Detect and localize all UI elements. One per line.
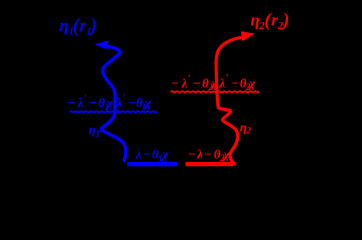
svg-text:1: 1 [95, 130, 100, 140]
svg-text:−: − [89, 95, 97, 110]
svg-text:χ: χ [105, 95, 114, 110]
node label eta1(r1) top-left [59, 16, 97, 38]
wire: blue level line [127, 162, 177, 166]
svg-text:−: − [231, 75, 239, 90]
node label lambda'-theta2chi (right of line) [219, 73, 257, 92]
svg-text:λ: λ [135, 146, 142, 161]
svg-text:−: − [171, 75, 179, 90]
svg-text:λ: λ [116, 95, 123, 110]
svg-text:): ) [89, 16, 97, 37]
wire: red wavy underline [171, 91, 260, 92]
svg-text:χ: χ [209, 75, 218, 90]
svg-text:−: − [143, 146, 151, 161]
svg-text:η: η [59, 16, 68, 35]
node label eta2(r2) top-right [250, 10, 289, 32]
node label -lambda'-theta1chi (left of line) [67, 94, 114, 113]
arrowhead blue [95, 40, 109, 49]
node label -lambda-theta2chi bottom [188, 146, 231, 163]
svg-text:−: − [128, 95, 136, 110]
svg-text:−: − [67, 95, 75, 110]
svg-text:λ: λ [196, 146, 203, 161]
svg-text:λ: λ [77, 95, 84, 110]
svg-text:′: ′ [123, 93, 126, 104]
svg-text:−: − [193, 75, 201, 90]
svg-text:′: ′ [84, 94, 87, 105]
wire: red wavy trajectory [216, 37, 241, 164]
svg-text:χ: χ [143, 95, 152, 110]
node label eta2 small [240, 120, 252, 137]
svg-text:λ: λ [219, 75, 226, 90]
svg-text:λ: λ [181, 75, 188, 90]
svg-text:): ) [281, 10, 289, 31]
node label -lambda'-theta2chi (left of line) [171, 74, 218, 93]
wire: red level line [186, 162, 234, 166]
svg-text:2: 2 [245, 127, 251, 137]
svg-text:χ: χ [247, 75, 256, 90]
svg-text:−: − [188, 146, 196, 161]
svg-text:′: ′ [188, 74, 191, 85]
node label lambda'-theta1chi (right of line) [116, 93, 153, 112]
svg-text:χ: χ [160, 146, 169, 161]
svg-text:−: − [204, 146, 212, 161]
arrowhead red [241, 31, 255, 41]
svg-text:′: ′ [226, 73, 229, 84]
wire: blue wavy trajectory [101, 46, 126, 160]
svg-text:χ: χ [222, 146, 231, 161]
node label lambda-theta1chi bottom [135, 146, 169, 163]
node label eta1 small [89, 122, 101, 140]
wire: blue wavy underline [70, 111, 157, 112]
